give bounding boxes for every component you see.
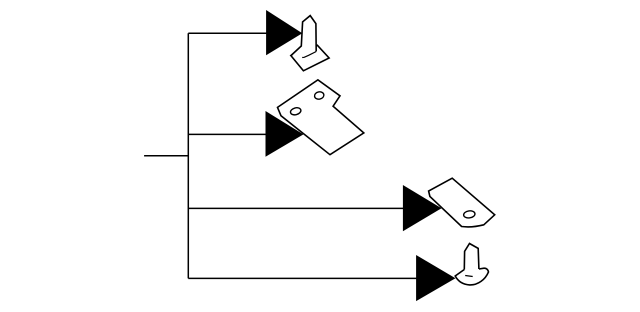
arrow 3: [403, 185, 442, 231]
part 2: notched plate: [278, 80, 364, 155]
part 4: rivet post outline: [464, 244, 479, 270]
part 3: flat bracket plate: [429, 178, 495, 227]
arrow 4: [416, 255, 455, 301]
part 4: rivet post fill: [464, 244, 479, 270]
part 2: hole right: [314, 91, 325, 100]
wire: branch 4: [188, 277, 417, 279]
part 3: hole: [463, 210, 475, 219]
part 4: fold tick: [465, 276, 473, 277]
part 4: rivet base rim: [455, 268, 488, 285]
wire: vertical trunk: [187, 33, 189, 278]
part 1: clip base plate: [291, 45, 329, 71]
wire: branch 2: [188, 133, 266, 135]
part 1: clip post outline: [291, 16, 316, 56]
wire: left stub: [144, 155, 189, 157]
part 2: hole left: [290, 107, 302, 116]
part 1: clip post mask: [291, 16, 316, 58]
wire: branch 1: [188, 32, 267, 34]
part 1: fold line: [302, 52, 316, 58]
arrow 2: [266, 111, 304, 157]
part 4: rivet base fill: [455, 268, 488, 285]
wire: branch 3: [188, 207, 404, 209]
arrow 1: [266, 10, 302, 55]
